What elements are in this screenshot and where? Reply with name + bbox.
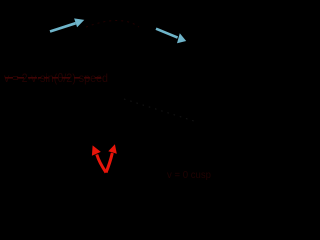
formula mid-stroke dashes (dark red) bbox=[5, 77, 101, 79]
faint cycloid curve apex (dark red, near-invisible) bbox=[86, 21, 139, 28]
velocity arrow left (blue) bbox=[50, 18, 84, 31]
cusp velocity arrows (red V) bbox=[92, 144, 117, 172]
svg-text:v = 0 cusp: v = 0 cusp bbox=[167, 170, 211, 181]
faint descending curve segment (dark dotted) bbox=[124, 99, 197, 122]
velocity arrow right (blue) bbox=[156, 29, 186, 44]
